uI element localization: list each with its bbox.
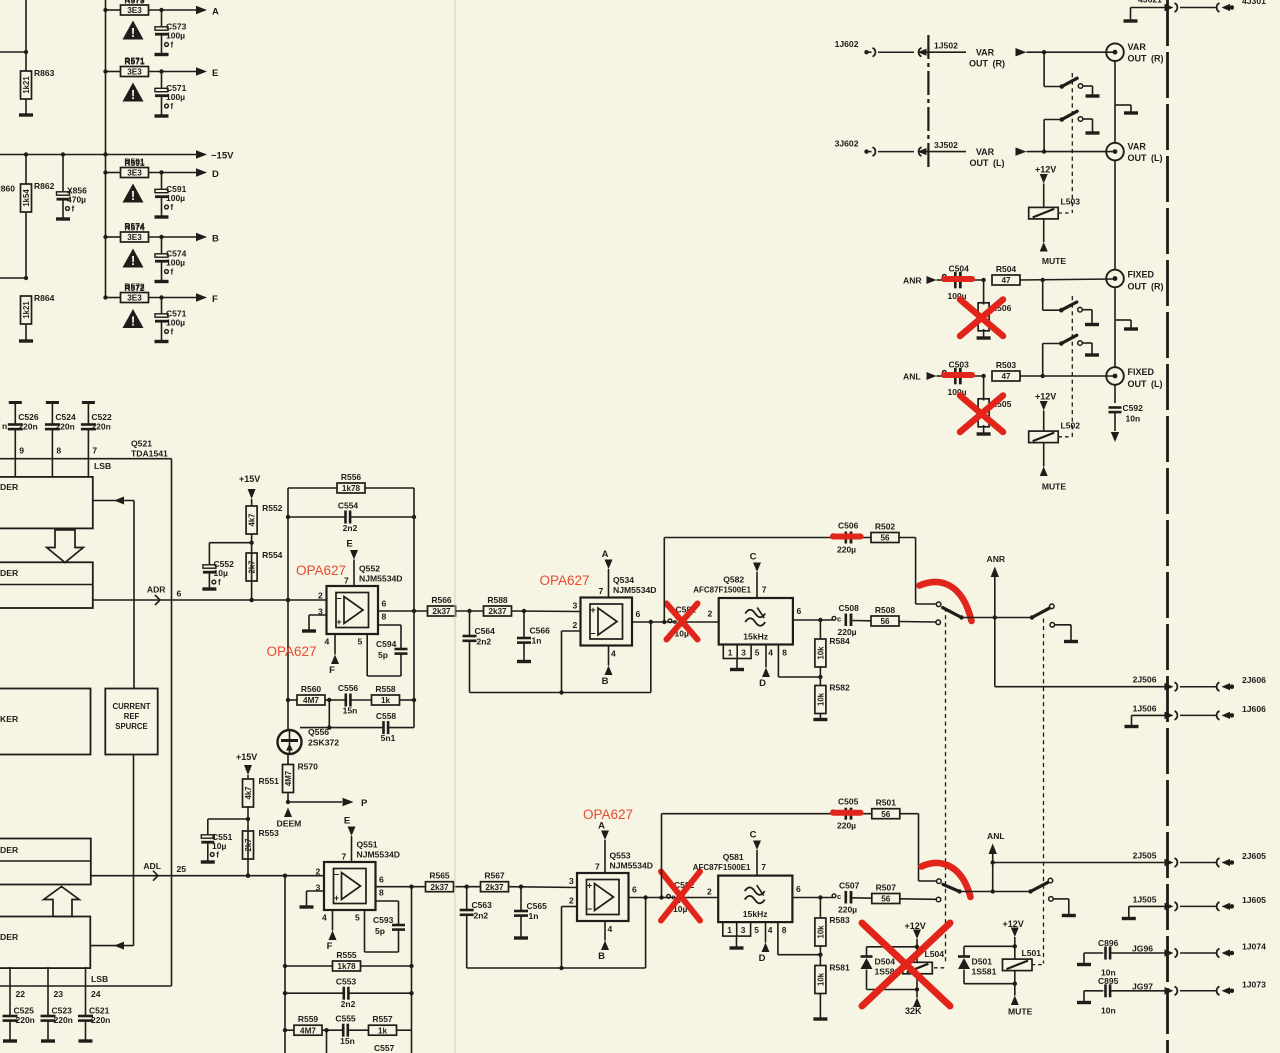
resistor R508 [871,605,936,626]
wire pin3 to ground lower [307,891,325,906]
svg-text:D: D [212,169,219,180]
svg-text:R582: R582 [829,683,850,693]
power +12V D501 block [1003,919,1024,946]
wire to ground upper-right switch [1055,625,1071,641]
capacitor C593 5p [365,901,406,952]
resistor R559 [283,1014,329,1053]
svg-text:4k7: 4k7 [244,786,253,799]
svg-text:2: 2 [573,620,578,630]
svg-text:R860: R860 [0,184,15,194]
svg-text:1k: 1k [378,1026,388,1035]
svg-text:2: 2 [708,609,713,619]
svg-text:C521: C521 [89,1006,110,1016]
svg-text:4: 4 [611,649,616,659]
resistor R503 [992,360,1113,381]
svg-text:R574: R574 [124,221,145,231]
ground [19,339,33,342]
svg-text:SPURCE: SPURCE [115,722,148,731]
svg-text:R567: R567 [484,871,505,881]
red stroke over C503 [944,372,972,378]
svg-text:C556: C556 [338,683,359,693]
pin 6 label Q581 [796,884,801,894]
svg-text:MUTE: MUTE [1042,256,1067,266]
resistor R502 [871,522,916,543]
svg-text:NJM5534D: NJM5534D [610,861,653,871]
svg-text:3J502: 3J502 [934,140,958,150]
wire ANR node [962,615,1032,619]
svg-text:R507: R507 [876,883,897,893]
net arrow A lower [598,821,609,874]
wire switch VAR R to ground [1083,86,1093,95]
svg-text:56: 56 [880,617,890,626]
svg-text:C522: C522 [91,412,112,422]
svg-text:4: 4 [322,913,327,923]
ground [202,587,216,590]
svg-text:D: D [759,678,766,689]
ground [1125,725,1139,728]
net arrow F lower [327,910,337,952]
svg-text:10µ: 10µ [212,841,226,851]
resistor R506 crossed out [978,278,1011,337]
wire pin8 Q581 [778,922,823,957]
wire output Q582 [793,618,833,622]
svg-text:R555: R555 [336,950,357,960]
connector JG96/1J074 [1165,942,1267,958]
switch VAR R [1044,52,1083,89]
svg-text:8: 8 [379,888,384,898]
pin 24 [91,989,101,999]
svg-text:R588: R588 [487,595,508,605]
svg-text:4M7: 4M7 [300,1026,316,1035]
svg-text:5n1: 5n1 [381,733,396,743]
wire to 2J505 [993,862,1166,864]
connector 3J602/3J502 [835,139,959,156]
node JG97 [1132,981,1153,991]
svg-text:OUT (R): OUT (R) [1128,282,1164,292]
svg-text:2k37: 2k37 [432,607,451,616]
filter Q582 AFC87F1500E1 [693,575,793,659]
svg-text:C506: C506 [838,521,859,531]
svg-text:R558: R558 [375,684,396,694]
resistor R553 [243,828,280,878]
svg-text:R501: R501 [876,798,897,808]
svg-text:5p: 5p [378,650,388,660]
boundary dash-dot 1J502 [927,35,929,169]
svg-text:56: 56 [880,534,890,543]
wire feedback top lower [662,814,843,898]
svg-text:5: 5 [755,647,760,657]
svg-text:LSB: LSB [91,974,108,984]
svg-text:VAR: VAR [1128,42,1147,52]
svg-text:F: F [212,294,218,305]
svg-text:C: C [750,830,757,841]
svg-text:1k54: 1k54 [22,189,31,207]
svg-text:2k7: 2k7 [244,838,253,851]
wire 1J505 ground [1129,906,1166,917]
wire R502 to switch [916,538,936,605]
svg-text:C592: C592 [1123,403,1144,413]
svg-text:F: F [329,665,335,676]
switch mute lower-right [1028,878,1053,901]
svg-text:3J602: 3J602 [835,139,859,149]
resistor R574 [124,223,145,233]
node JG96 [1132,944,1153,954]
block arrow down [47,530,84,563]
svg-text:L503: L503 [1061,197,1081,207]
svg-text:C593: C593 [373,915,394,925]
power +15V lower [236,752,257,779]
capacitor C506 220u [831,521,871,555]
svg-text:10n: 10n [1126,414,1141,424]
capacitor C592 10n [1109,403,1144,431]
net arrow F upper [329,634,339,676]
svg-text:R573: R573 [124,0,145,6]
svg-text:R863: R863 [34,68,55,78]
capacitor C521 220n [78,967,110,1041]
capacitor X856 470µ [57,155,88,219]
svg-text:4J301: 4J301 [1242,0,1266,6]
resistor R555 [285,950,412,971]
warning triangle [123,249,144,268]
pin 7 [92,446,97,456]
svg-text:2k37: 2k37 [485,883,504,892]
svg-text:R557: R557 [372,1014,393,1024]
svg-text:7: 7 [761,862,766,872]
svg-text:5p: 5p [375,926,385,936]
net arrow C upper [750,552,761,599]
svg-text:470µ: 470µ [67,195,86,205]
svg-text:32K: 32K [905,1006,922,1016]
block KER [0,689,91,755]
capacitor C523 220n [41,967,73,1041]
red X over R505 [960,396,1003,433]
diode D501 1S581 [958,946,1015,983]
-15V rail [0,150,234,161]
svg-text:ANL: ANL [903,372,921,382]
svg-text:10k: 10k [816,692,825,706]
connector 4J621/4J301 [1131,0,1267,20]
svg-text:ADL: ADL [143,861,161,871]
capacitor C565 1n [514,887,547,937]
wire left feedback bus lower [283,876,287,1053]
svg-text:DER: DER [0,568,19,578]
capacitor C552 10u [203,543,252,588]
resistor R573 [103,0,196,15]
wire pin2 loop Q534 [559,631,580,695]
svg-text:6: 6 [177,589,182,599]
relay L501 [964,944,1043,986]
capacitor C525 220n [3,967,35,1041]
transistor Q556 2SK372 [278,700,340,754]
svg-text:3: 3 [573,601,578,611]
resistor R560 [288,684,331,705]
ground [514,936,528,939]
net arrow MUTE L501 [1008,984,1033,1017]
svg-text:220µ: 220µ [838,627,857,637]
svg-text:A: A [598,821,605,832]
capacitor C508 220u [832,603,871,637]
svg-text:2J506: 2J506 [1133,675,1157,685]
red arc annotation upper [920,582,972,621]
wire output Q551 [376,885,427,889]
resistor R556 [288,472,414,493]
svg-text:D501: D501 [972,957,993,967]
svg-text:L502: L502 [1061,421,1081,431]
svg-text:FIXED: FIXED [1128,270,1155,280]
capacitor C895 10n [1077,976,1166,1016]
ground [977,432,991,435]
svg-text:VAR: VAR [1128,142,1147,152]
svg-text:47: 47 [1001,276,1011,285]
net arrow E lower [344,816,356,863]
resistor R581 [815,963,850,1019]
ground [1062,914,1076,917]
svg-text:R556: R556 [341,472,362,482]
red X over C581 [667,604,698,640]
svg-text:L504: L504 [925,949,945,959]
svg-text:A: A [602,549,609,560]
wire to 2J506 [995,618,1166,687]
svg-text:100µ: 100µ [166,318,185,328]
block DECODER lower-left upper [0,839,91,885]
svg-text:8: 8 [56,446,61,456]
svg-text:6: 6 [636,609,641,619]
resistor R507 [872,883,936,904]
svg-text:LSB: LSB [94,461,111,471]
svg-text:1J502: 1J502 [934,41,958,51]
net arrow F [196,293,218,305]
svg-text:3E3: 3E3 [127,6,142,15]
svg-text:B: B [602,676,609,687]
svg-text:25: 25 [177,864,187,874]
svg-text:B: B [598,951,605,962]
wire [0,276,28,280]
svg-text:Q552: Q552 [359,564,380,574]
ground filter 1-3 lower [730,936,744,948]
svg-text:f: f [171,203,174,212]
resistor R566 [428,595,484,616]
svg-text:6: 6 [379,875,384,885]
wire right feedback bus lower [409,887,413,1053]
svg-text:C896: C896 [1098,938,1119,948]
svg-text:4J621: 4J621 [1138,0,1162,5]
svg-text:f: f [171,328,174,337]
svg-text:220µ: 220µ [837,821,856,831]
svg-text:R583: R583 [829,915,850,925]
svg-text:100µ: 100µ [166,31,185,41]
capacitor C504 100u [942,263,983,301]
svg-text:f: f [171,268,174,277]
svg-text:15kHz: 15kHz [743,632,768,642]
svg-text:Q521: Q521 [131,439,152,449]
net arrow B lower [598,921,609,962]
resistor R501 [872,798,919,819]
svg-text:C505: C505 [838,797,859,807]
svg-text:C524: C524 [55,412,76,422]
svg-text:R862: R862 [34,181,55,191]
svg-text:C557: C557 [374,1043,395,1053]
svg-text:CURRENT: CURRENT [112,702,150,711]
svg-text:Q556: Q556 [308,727,329,737]
svg-text:2: 2 [569,896,574,906]
net arrow ANL fixed [903,372,942,382]
net arrow ANR [987,554,1006,618]
svg-text:2k37: 2k37 [430,883,449,892]
svg-text:C503: C503 [949,359,970,369]
wire 1J506 ground [1132,715,1167,725]
svg-text:R864: R864 [34,293,55,303]
svg-text:f: f [218,578,221,587]
ground [1124,19,1138,22]
warning triangle [123,83,144,102]
connector 2J505/2J605 [1133,851,1267,867]
chassis arrow [1111,432,1119,442]
svg-text:R552: R552 [262,503,283,513]
label C557 [374,1043,395,1053]
capacitor C564 2n2 [463,611,496,693]
svg-text:REF: REF [124,712,140,721]
svg-text:R502: R502 [875,522,896,532]
svg-text:1k21: 1k21 [22,301,31,319]
svg-text:220n: 220n [54,1015,73,1025]
op-amp Q552 NJM5534D [318,564,402,647]
svg-text:6: 6 [632,885,637,895]
resistor R584 [815,620,850,686]
svg-text:−: − [334,870,339,880]
svg-text:!: ! [131,25,135,40]
svg-text:KER: KER [0,714,19,724]
net arrow B [196,233,219,245]
svg-text:4: 4 [768,925,773,935]
svg-text:5: 5 [358,637,363,647]
svg-text:2: 2 [316,867,321,877]
svg-text:C526: C526 [18,412,39,422]
ground [1085,353,1099,356]
IC right bus [171,459,173,986]
svg-text:C555: C555 [335,1014,356,1024]
svg-text:ANR: ANR [987,554,1006,564]
switch mute lower-left [936,879,962,902]
svg-text:DER: DER [0,482,19,492]
svg-text:C565: C565 [527,901,548,911]
svg-text:1J073: 1J073 [1242,979,1266,989]
wire pin row [0,421,172,459]
svg-text:C553: C553 [336,977,357,987]
relay L504 [867,945,946,992]
svg-text:JG96: JG96 [1132,944,1153,954]
annotation OPA627 red 1 [296,563,346,578]
svg-text:Q534: Q534 [613,575,634,585]
svg-text:15n: 15n [340,1036,355,1046]
svg-text:+15V: +15V [236,752,257,762]
svg-text:R571: R571 [124,56,145,66]
red arc annotation lower [922,863,971,897]
board boundary dash-dot line [1166,0,1169,1053]
svg-text:220µ: 220µ [838,905,857,915]
ground [155,215,169,218]
svg-text:2n2: 2n2 [474,911,489,921]
switch FIXED L [1043,335,1083,376]
svg-text:7: 7 [342,852,347,862]
svg-text:4k7: 4k7 [248,513,257,526]
switch mute upper-right [1030,604,1055,627]
svg-text:R504: R504 [996,264,1017,274]
filter Q581 AFC87F1500E1 [693,852,793,936]
capacitor C558 5n1 [300,700,414,743]
net arrow E [196,67,218,79]
svg-text:OPA627: OPA627 [267,644,317,659]
resistor R505 crossed out [978,374,1011,433]
svg-text:6: 6 [796,884,801,894]
svg-text:1J605: 1J605 [1242,895,1266,905]
warning triangle [123,21,144,40]
svg-text:1k: 1k [381,696,391,705]
svg-text:15kHz: 15kHz [743,909,768,919]
ground [302,629,316,632]
capacitor C566 1n [517,611,550,661]
relay L502 [1029,421,1081,443]
power +12V D504 block [905,921,926,947]
capacitor C594 5p [367,625,407,676]
resistor R572 [124,283,145,293]
mech dashed link B [1043,619,1045,964]
svg-text:3E3: 3E3 [127,294,142,303]
svg-text:10k: 10k [816,972,825,986]
warning triangle [123,184,144,203]
annotation OPA627 red 3 [540,573,590,588]
capacitor C554 2n2 [288,501,414,534]
svg-text:1k78: 1k78 [337,962,356,971]
ground [155,340,169,343]
svg-text:C507: C507 [839,881,860,891]
svg-text:4: 4 [768,647,773,657]
connector 1J602/1J502 [835,39,959,56]
ground [300,905,314,908]
wire output Q534 [632,620,677,624]
svg-text:2k7: 2k7 [248,560,257,573]
svg-text:R584: R584 [829,636,850,646]
switch mute upper-left [936,602,964,625]
svg-text:OPA627: OPA627 [540,573,590,588]
svg-text:C563: C563 [472,900,493,910]
svg-text:C564: C564 [475,626,496,636]
svg-text:+12V: +12V [1035,392,1056,402]
capacitor C507 220u [832,881,872,915]
capacitor C574 100µ [155,237,187,281]
resistor R557 [369,1014,412,1035]
svg-text:100µ: 100µ [166,258,185,268]
svg-text:56: 56 [881,895,891,904]
net arrow D lower [759,922,770,964]
resistor R565 [426,871,481,892]
ground [517,660,531,663]
svg-text:C594: C594 [376,639,397,649]
capacitor C551 10u [201,819,248,861]
capacitor C571 100µ [155,72,187,116]
svg-text:10k: 10k [816,925,825,939]
svg-text:2: 2 [707,887,712,897]
wire VAR OUT R feed [1016,48,1115,56]
block DECODER lower-left lower [0,917,90,969]
resistor R554 [246,550,283,602]
net arrow 32K [905,990,922,1017]
relay L503 [1029,197,1081,219]
svg-text:R553: R553 [259,828,280,838]
svg-text:OUT (L): OUT (L) [1128,153,1163,163]
annotation OPA627 red 4 [583,807,633,822]
svg-text:!: ! [131,188,135,203]
wire to ground lower-right switch [1053,899,1068,915]
